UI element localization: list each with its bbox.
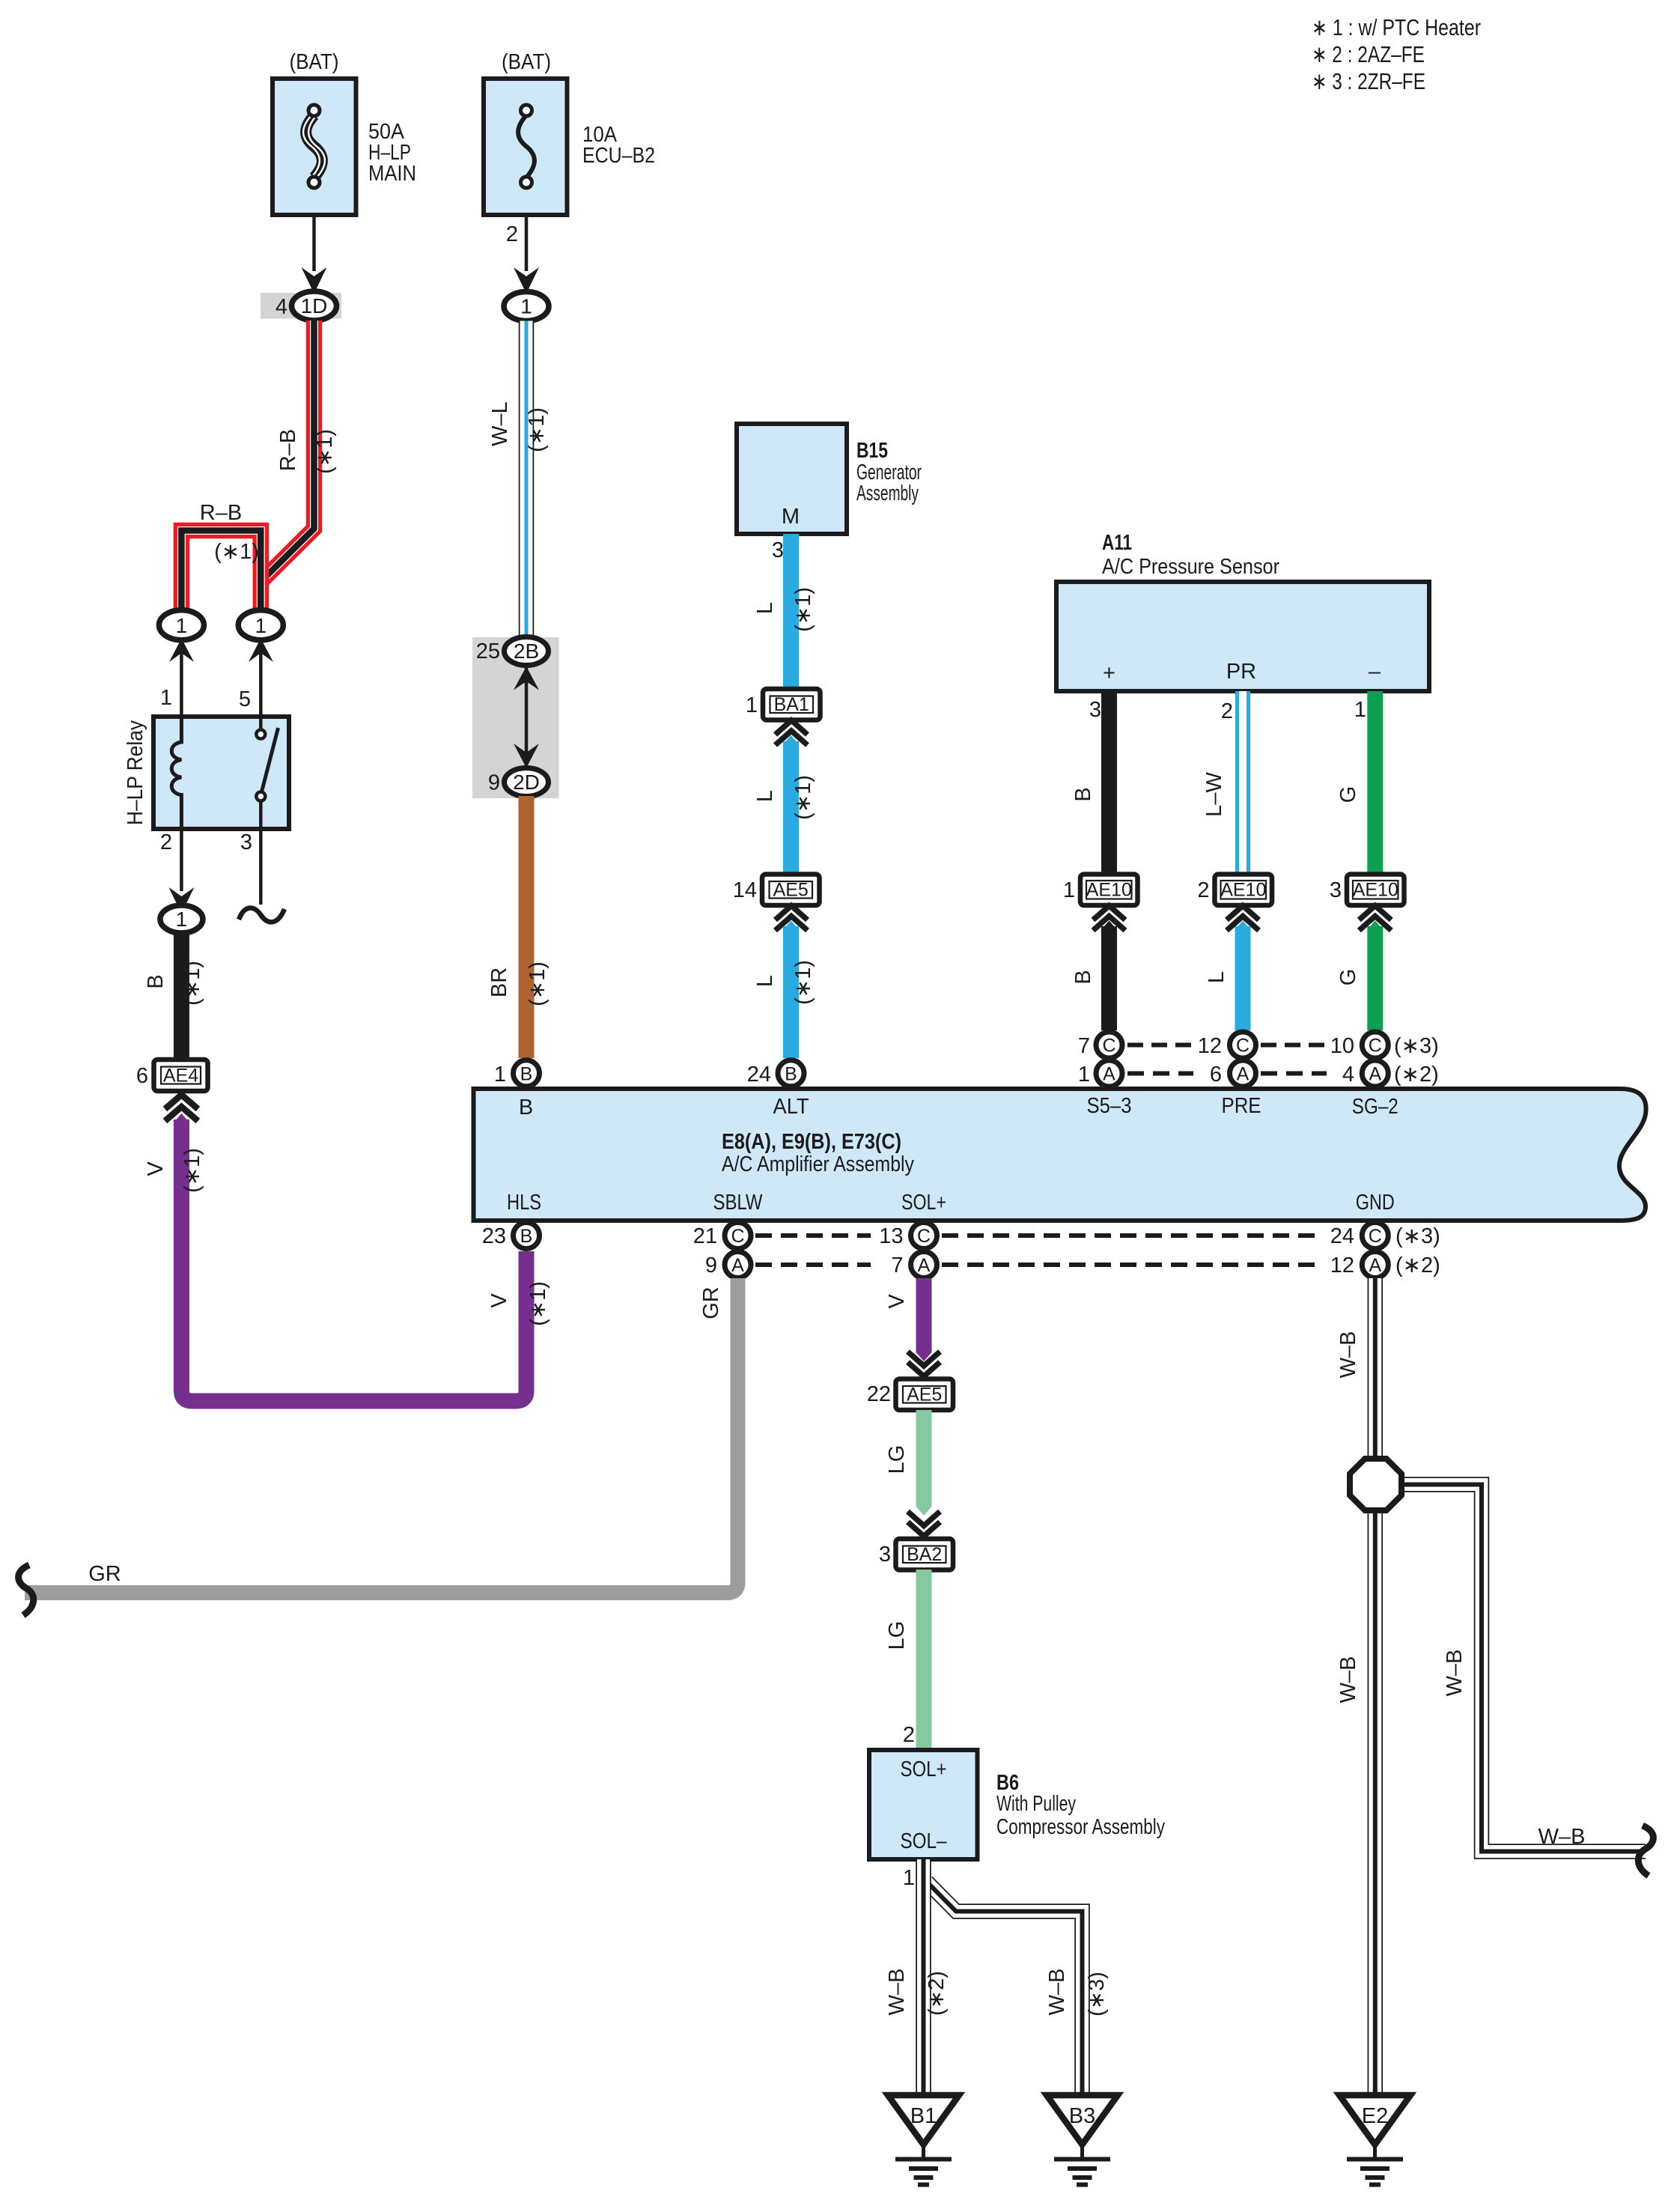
node 1 (below F2) — [504, 292, 549, 321]
svg-text:B: B — [1071, 970, 1095, 984]
label LG rotated — [885, 1621, 909, 1650]
svg-text:12: 12 — [1330, 1254, 1354, 1277]
svg-text:24: 24 — [1330, 1224, 1354, 1248]
svg-text:S5–3: S5–3 — [1087, 1094, 1132, 1118]
svg-text:A/C Amplifier Assembly: A/C Amplifier Assembly — [722, 1152, 914, 1176]
svg-text:C: C — [1369, 1036, 1382, 1057]
pin circle 24(B) — [747, 1060, 804, 1087]
svg-text:(∗1): (∗1) — [180, 1148, 204, 1193]
junction block 2B/2D (grey) — [472, 637, 559, 798]
svg-text:AE5: AE5 — [907, 1385, 942, 1406]
svg-text:SBLW: SBLW — [713, 1191, 764, 1215]
svg-text:3: 3 — [772, 538, 784, 562]
svg-text:LG: LG — [885, 1621, 909, 1650]
svg-text:With Pulley: With Pulley — [996, 1792, 1076, 1816]
connector 2D pin 9 — [488, 768, 549, 797]
svg-text:G: G — [1336, 969, 1360, 986]
wire relay pin2 to node 1 — [168, 829, 194, 914]
wire L (*1) AE5 to amp pin 24(B) — [783, 921, 799, 1059]
svg-text:9: 9 — [488, 771, 500, 795]
svg-text:Compressor Assembly: Compressor Assembly — [996, 1815, 1165, 1839]
pin circle 24(C) (*3) — [1330, 1223, 1440, 1249]
svg-text:C: C — [731, 1226, 744, 1247]
svg-text:(∗3): (∗3) — [1395, 1224, 1440, 1248]
label G rotated — [1336, 969, 1360, 986]
label GR rotated — [699, 1286, 723, 1319]
svg-text:1: 1 — [1063, 878, 1075, 902]
label W-B horizontal (branch end) — [1538, 1825, 1586, 1849]
label L (*1) rotated — [753, 587, 815, 632]
svg-text:A: A — [1369, 1064, 1381, 1085]
label W-L (*1) rotated — [488, 401, 549, 452]
wire W-B from 12(A) to junction — [1368, 1278, 1384, 1459]
label W-B (*2) rotated — [885, 1969, 949, 2016]
svg-text:B: B — [785, 1064, 797, 1085]
dashed link 13C-24C — [942, 1233, 1319, 1238]
svg-text:(∗1): (∗1) — [526, 1281, 550, 1326]
label 50A H-LP MAIN — [368, 120, 416, 186]
connector BA1 pin 1 — [746, 689, 821, 720]
svg-text:(∗2): (∗2) — [925, 1971, 949, 2016]
wire F1 to connector 1D — [302, 215, 327, 294]
pin circle 7(C) — [1078, 1032, 1122, 1058]
label L rotated — [1205, 971, 1229, 983]
label V (*1) rotated right — [487, 1281, 550, 1326]
label BR (*1) rotated — [487, 961, 550, 1006]
svg-text:SOL+: SOL+ — [901, 1191, 946, 1215]
svg-text:4: 4 — [1342, 1063, 1354, 1087]
svg-text:2B: 2B — [514, 639, 539, 663]
svg-text:B15: B15 — [856, 439, 888, 463]
svg-text:B: B — [1071, 787, 1095, 801]
wire BR (*1) from 2D to amp pin 1(B) — [519, 796, 535, 1058]
label pin 3 of A11 — [1089, 698, 1101, 722]
label W-B rotated — [1336, 1331, 1360, 1379]
svg-text:C: C — [1236, 1036, 1250, 1057]
wire GR from 9(A) to harness break — [25, 1278, 738, 1593]
wire B AE10 to amp 7(C)/1(A) — [1101, 921, 1117, 1031]
svg-text:(∗2): (∗2) — [1395, 1254, 1440, 1277]
svg-text:W–B: W–B — [1336, 1331, 1360, 1379]
svg-text:V: V — [885, 1294, 909, 1309]
label (BAT) for F1 — [290, 50, 339, 74]
wire W-L (*1) from node1 to 2B — [519, 321, 535, 638]
svg-text:(∗1): (∗1) — [525, 407, 549, 452]
svg-text:(∗3): (∗3) — [1394, 1034, 1439, 1058]
svg-text:GR: GR — [88, 1562, 121, 1586]
svg-text:BA1: BA1 — [774, 694, 809, 715]
svg-text:(∗1): (∗1) — [180, 961, 204, 1006]
svg-text:W–L: W–L — [488, 401, 512, 446]
relay H-LP Relay — [124, 717, 289, 829]
svg-text:C: C — [917, 1226, 931, 1247]
dashed link 21C-13C — [755, 1233, 871, 1238]
pin circle 12(C) — [1198, 1032, 1256, 1058]
arrow into right node 1 — [249, 639, 273, 663]
ground E2 — [1339, 2095, 1410, 2185]
label B15 Generator Assembly — [856, 439, 922, 505]
label pin 2 of F2 — [506, 222, 518, 246]
label W-B (*3) rotated — [1045, 1969, 1109, 2017]
fuse F1 50A H-LP MAIN — [273, 79, 356, 215]
label pin 2 of B6 — [903, 1723, 915, 1747]
svg-text:1: 1 — [1354, 698, 1366, 722]
label V rotated — [885, 1294, 909, 1309]
wire B (*1) from node1 to AE4 — [174, 932, 189, 1060]
svg-text:10: 10 — [1330, 1034, 1354, 1058]
connector AE5 pin 22 — [867, 1379, 953, 1411]
svg-text:B3: B3 — [1069, 2104, 1095, 2128]
svg-text:V: V — [144, 1161, 168, 1176]
label LG rotated — [885, 1445, 909, 1474]
svg-text:1: 1 — [176, 908, 188, 931]
dashed link 6A-4A — [1261, 1072, 1327, 1076]
wire L AE10 to amp 12(C)/6(A) — [1235, 921, 1251, 1031]
pin circle 4(A) (*2) — [1342, 1060, 1439, 1087]
arrow chevrons into BA1 — [776, 720, 808, 745]
svg-text:12: 12 — [1198, 1034, 1222, 1058]
svg-text:B: B — [519, 1096, 533, 1119]
connector AE5 pin 14 — [733, 875, 820, 906]
wire B from A11 + to AE10 — [1101, 691, 1117, 874]
svg-text:M: M — [782, 505, 800, 529]
svg-text:1: 1 — [746, 693, 758, 717]
svg-text:6: 6 — [136, 1064, 148, 1088]
svg-text:B: B — [520, 1064, 533, 1085]
dashed link 1A-6A — [1127, 1072, 1193, 1076]
label pin 1 of A11 — [1354, 698, 1366, 722]
generator assembly B15 — [737, 424, 847, 534]
label pin 5 — [239, 687, 251, 711]
connector BA2 pin 3 — [879, 1539, 953, 1570]
svg-text:(BAT): (BAT) — [502, 50, 551, 74]
label W-B rotated (branch) — [1443, 1650, 1467, 1697]
svg-text:W–B: W–B — [1045, 1969, 1069, 2016]
pin circle 1(A) — [1078, 1060, 1122, 1087]
svg-text:H–LP Relay: H–LP Relay — [124, 720, 147, 825]
svg-text:(∗1): (∗1) — [526, 961, 550, 1006]
svg-text:3: 3 — [240, 830, 252, 854]
connector AE10 pin 3 — [1330, 875, 1404, 906]
svg-text:R–B: R–B — [200, 501, 242, 525]
svg-text:1: 1 — [176, 614, 188, 637]
wire F2 to node 1 — [514, 215, 539, 294]
connector 2B pin 25 — [476, 637, 549, 666]
svg-text:2: 2 — [1221, 699, 1233, 723]
dashed link 9A-7A — [755, 1263, 871, 1267]
svg-text:BA2: BA2 — [907, 1544, 942, 1565]
wire G AE10 to amp 10(C)/4(A) — [1367, 921, 1383, 1031]
svg-text:1: 1 — [903, 1866, 915, 1890]
pin circle 7(A) — [891, 1252, 937, 1278]
wire W-B (*2) from B6 SOL- to ground B1 — [916, 1859, 931, 2094]
svg-text:3: 3 — [879, 1543, 891, 1567]
connector AE10 pin 1 — [1063, 875, 1138, 906]
svg-text:Assembly: Assembly — [856, 481, 919, 505]
svg-text:A: A — [1369, 1255, 1381, 1276]
svg-text:SOL–: SOL– — [901, 1829, 948, 1853]
pin circle 23(B) — [482, 1223, 540, 1249]
svg-text:A: A — [1103, 1064, 1115, 1085]
svg-text:7: 7 — [1078, 1034, 1090, 1058]
svg-text:HLS: HLS — [507, 1191, 541, 1215]
wire G from A11 - to AE10 — [1367, 691, 1383, 874]
svg-text:1: 1 — [255, 614, 267, 637]
label L-W rotated — [1202, 772, 1226, 817]
svg-text:∗ 1 : w/ PTC Heater: ∗ 1 : w/ PTC Heater — [1312, 14, 1481, 40]
svg-text:LG: LG — [885, 1445, 909, 1474]
svg-text:23: 23 — [482, 1224, 506, 1248]
svg-text:AE10: AE10 — [1353, 880, 1398, 901]
wire L (*1) BA1 to AE5 — [783, 735, 799, 874]
dashed link 12C-10C — [1261, 1043, 1325, 1048]
svg-text:L: L — [753, 975, 777, 987]
svg-text:(∗1): (∗1) — [791, 960, 815, 1005]
connector 1D (grey block, pin 4) — [261, 291, 341, 320]
svg-text:AE4: AE4 — [163, 1066, 198, 1087]
harness break symbol (left) — [19, 1565, 34, 1615]
svg-text:A: A — [1237, 1064, 1250, 1085]
arrow chevrons into AE5 — [776, 906, 808, 931]
label G rotated — [1336, 786, 1360, 803]
svg-text:(∗1): (∗1) — [214, 540, 259, 564]
svg-text:+: + — [1103, 661, 1115, 685]
label R-B loop — [200, 501, 242, 525]
wire L (*1) B15 to BA1 — [783, 534, 799, 690]
arrow chevrons into AE5 pin22 — [908, 1352, 940, 1376]
arrow chevrons below AE10 pin1 — [1093, 906, 1125, 931]
legend note *3 2ZR-FE — [1312, 68, 1425, 94]
A/C amplifier assembly E8(A) E9(B) E73(C) — [474, 1089, 1646, 1221]
fuse F2 10A ECU-B2 — [484, 79, 567, 215]
svg-text:5: 5 — [239, 687, 251, 711]
pin circle 13(C) — [879, 1223, 937, 1249]
label (*1) loop — [214, 540, 259, 564]
node 1 (left, relay pin1 feed) — [159, 610, 204, 640]
svg-text:A11: A11 — [1102, 531, 1132, 555]
svg-text:SOL+: SOL+ — [901, 1757, 947, 1781]
label 10A ECU-B2 — [582, 123, 655, 168]
label L (*1) rotated — [753, 960, 815, 1005]
wire node1 to relay pin 1 — [180, 653, 183, 717]
svg-text:B1: B1 — [910, 2104, 937, 2128]
label pin 2 of A11 — [1221, 699, 1233, 723]
svg-text:B: B — [520, 1226, 533, 1247]
harness break symbol (right) — [1638, 1826, 1653, 1876]
svg-text:E2: E2 — [1362, 2104, 1388, 2128]
svg-text:1: 1 — [160, 686, 172, 710]
connector AE4 pin 6 — [136, 1060, 208, 1091]
ground B1 — [888, 2095, 959, 2185]
pin circle 12(A) (*2) — [1330, 1252, 1440, 1278]
label W-B rotated (to E2) — [1336, 1656, 1360, 1704]
svg-text:13: 13 — [879, 1224, 903, 1248]
svg-text:L–W: L–W — [1202, 772, 1226, 817]
svg-text:7: 7 — [891, 1254, 903, 1277]
compressor assembly B6 — [869, 1750, 978, 1859]
svg-text:25: 25 — [476, 639, 500, 663]
label V (*1) rotated left — [144, 1148, 204, 1193]
dashed link 7C-12C — [1127, 1043, 1192, 1048]
svg-text:2: 2 — [1197, 878, 1209, 902]
wire L-W from A11 PR to AE10 — [1235, 691, 1250, 874]
svg-text:ECU–B2: ECU–B2 — [582, 144, 655, 168]
pin circle 1(B) — [494, 1060, 540, 1087]
svg-text:2: 2 — [506, 222, 518, 246]
svg-text:W–B: W–B — [885, 1969, 909, 2016]
label pin 3 — [240, 830, 252, 854]
svg-text:1: 1 — [1078, 1063, 1090, 1087]
arrow chevrons into AE4 — [165, 1095, 198, 1121]
svg-text:–: – — [1369, 660, 1381, 684]
svg-text:R–B: R–B — [276, 429, 300, 471]
wire relay pin3 open end — [239, 829, 284, 922]
svg-text:ALT: ALT — [773, 1095, 809, 1119]
svg-text:G: G — [1336, 786, 1360, 803]
legend note *2 2AZ-FE — [1312, 41, 1425, 67]
svg-text:B: B — [144, 974, 168, 988]
svg-text:3: 3 — [1089, 698, 1101, 722]
wire W-B from junction to ground E2 — [1368, 1510, 1384, 2094]
wire LG BA2 to B6 SOL+ — [916, 1570, 932, 1750]
svg-text:2: 2 — [903, 1723, 915, 1747]
dashed link 7A-12A — [942, 1263, 1319, 1267]
svg-text:AE10: AE10 — [1086, 880, 1132, 901]
label pin 1 — [160, 686, 172, 710]
label pin 2 — [160, 830, 172, 854]
label B (*1) rotated — [144, 961, 204, 1006]
svg-text:PR: PR — [1226, 660, 1256, 684]
svg-text:3: 3 — [1330, 878, 1342, 902]
svg-text:14: 14 — [733, 878, 757, 902]
svg-text:4: 4 — [276, 295, 287, 319]
svg-text:2D: 2D — [513, 771, 540, 794]
svg-text:MAIN: MAIN — [368, 162, 416, 186]
legend note *1 w/ PTC Heater — [1312, 14, 1481, 40]
svg-text:1: 1 — [520, 295, 532, 318]
svg-text:1D: 1D — [301, 294, 328, 317]
pin circle 10(C) (*3) — [1330, 1032, 1439, 1058]
svg-text:W–B: W–B — [1336, 1656, 1360, 1704]
svg-text:(∗1): (∗1) — [791, 775, 815, 820]
svg-text:21: 21 — [693, 1224, 717, 1248]
arrow chevrons below AE10 pin3 — [1359, 906, 1391, 931]
svg-text:GND: GND — [1356, 1191, 1395, 1215]
arrow chevrons into BA2 pin3 — [908, 1512, 940, 1537]
wire R-B loop to relay pin1 node — [181, 531, 261, 613]
svg-text:1: 1 — [494, 1063, 506, 1087]
svg-text:L: L — [753, 790, 777, 802]
pin circle 21(C) — [693, 1223, 751, 1249]
svg-text:E8(A), E9(B), E73(C): E8(A), E9(B), E73(C) — [722, 1130, 901, 1154]
svg-text:∗ 3 : 2ZR–FE: ∗ 3 : 2ZR–FE — [1312, 68, 1425, 94]
svg-text:AE10: AE10 — [1220, 880, 1266, 901]
svg-text:(∗2): (∗2) — [1394, 1063, 1439, 1087]
node 1 (right, relay pin5 feed) — [238, 610, 283, 640]
label B6 With Pulley Compressor Assembly — [996, 1771, 1165, 1839]
arrow into left node 1 — [169, 639, 194, 663]
node 1 (below relay pin2) — [160, 905, 203, 933]
label B rotated — [1071, 787, 1095, 801]
svg-text:6: 6 — [1210, 1063, 1222, 1087]
svg-text:9: 9 — [705, 1254, 717, 1277]
label pin 1 of B6 — [903, 1866, 915, 1890]
svg-text:AE5: AE5 — [773, 880, 809, 901]
pin circle 6(A) — [1210, 1060, 1256, 1087]
svg-text:W–B: W–B — [1443, 1650, 1467, 1697]
svg-text:SG–2: SG–2 — [1352, 1095, 1398, 1119]
wire V (*1) from AE4 to HLS pin 23 — [174, 1113, 526, 1401]
label L (*1) rotated — [753, 775, 815, 820]
svg-text:GR: GR — [699, 1286, 723, 1319]
junction (octagon splice) — [1350, 1459, 1401, 1510]
pin circle 9(A) — [705, 1252, 751, 1278]
wire node1 to relay pin 5 — [259, 653, 263, 717]
svg-text:A: A — [731, 1255, 744, 1276]
svg-text:∗ 2 : 2AZ–FE: ∗ 2 : 2AZ–FE — [1312, 41, 1425, 67]
wire LG AE5 to BA2 — [916, 1410, 932, 1516]
svg-text:24: 24 — [747, 1063, 771, 1087]
svg-text:L: L — [1205, 971, 1229, 983]
svg-text:C: C — [1369, 1226, 1382, 1247]
svg-text:L: L — [753, 602, 777, 614]
svg-text:(∗1): (∗1) — [313, 429, 337, 474]
label R-B (*1) rotated — [276, 429, 337, 474]
label GR horizontal — [88, 1562, 121, 1586]
label (BAT) for F2 — [502, 50, 551, 74]
label B rotated — [1071, 970, 1095, 984]
relay coil — [171, 717, 181, 829]
svg-text:22: 22 — [867, 1382, 891, 1406]
ground B3 — [1047, 2095, 1118, 2185]
svg-text:A: A — [918, 1255, 931, 1276]
svg-text:2: 2 — [160, 830, 172, 854]
wire W-B branch from junction to harness break (right) — [1403, 1485, 1646, 1852]
wire V from 7(A) to AE5 — [916, 1278, 932, 1361]
wire 2B to 2D with arrows — [514, 666, 539, 768]
A/C pressure sensor A11 — [1056, 582, 1429, 691]
svg-text:V: V — [487, 1293, 511, 1308]
svg-text:BR: BR — [487, 967, 511, 997]
svg-text:(∗1): (∗1) — [791, 587, 815, 632]
svg-text:W–B: W–B — [1538, 1825, 1586, 1849]
connector AE10 pin 2 — [1197, 875, 1272, 906]
svg-text:A/C Pressure Sensor: A/C Pressure Sensor — [1102, 555, 1279, 579]
svg-text:(∗3): (∗3) — [1085, 1972, 1109, 2017]
relay switch — [256, 717, 278, 829]
label pin 3 of B15 — [772, 538, 784, 562]
svg-text:C: C — [1102, 1036, 1115, 1057]
wire R-B (*1) from 1D to relay pin5 node — [263, 320, 314, 580]
svg-text:(BAT): (BAT) — [290, 50, 339, 74]
wire W-B (*3) branch to ground B3 — [927, 1882, 1083, 2094]
arrow chevrons below AE10 pin2 — [1227, 906, 1259, 931]
label A11 A/C Pressure Sensor — [1102, 531, 1279, 579]
svg-text:PRE: PRE — [1222, 1094, 1261, 1118]
